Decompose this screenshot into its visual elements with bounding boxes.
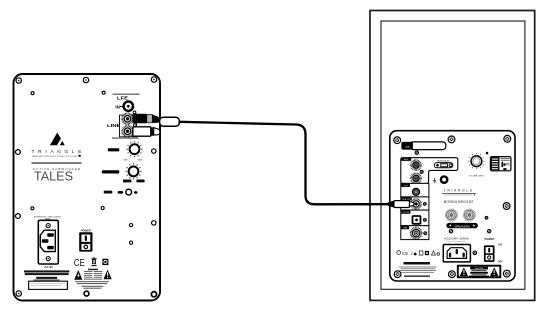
line-in mounting box [120,115,137,137]
small screw near jacks top [133,111,136,114]
RCA jack line L [122,114,133,125]
WEEE bin icon [91,257,97,266]
screw top-middle [83,77,88,82]
svg-text:AC IN: AC IN [44,265,52,269]
40Hz label blob [123,180,131,183]
cable plug into sub out [388,201,418,208]
plate screw mid-right [503,203,510,210]
company bold line [404,262,431,265]
SUB OUT label [401,197,412,201]
svg-text:CE: CE [402,251,408,256]
small screw right of phono jack [424,232,427,235]
small hole right-2 [130,241,133,244]
plate screw bottom-middle [449,271,456,278]
svg-text:MIN: MIN [124,160,128,162]
screw mid-left upper [16,150,21,155]
150Hz label blob [136,180,144,183]
wire segment over cabinet wall [367,203,389,205]
SPEAKERS pill label [446,223,478,229]
svg-text:VOLUME INPUT: VOLUME INPUT [469,175,485,177]
small screw near jacks mid [133,124,136,127]
svg-text:USB: USB [405,146,410,148]
serial label box [29,281,68,289]
small hole upper-left [31,92,34,95]
IEC inlet (left panel) [38,220,58,264]
SUB OUT box [401,197,429,210]
PHONO label [401,226,409,230]
small hole lower-mid [101,207,104,210]
small screw right of sub jack [423,203,426,206]
cabinet inner outline [381,21,525,289]
power rocker switch (left) [79,232,92,251]
OPT IN label [401,211,410,215]
warning triangle left (lightning) [74,270,82,280]
bold underlined model line [36,277,57,279]
screw bottom-left [16,291,21,296]
small hole lower-left [31,207,34,210]
IEC inlet (right plate) [443,245,470,262]
small screw right of toslink [424,219,427,222]
black square icon [102,259,108,265]
caution fine print [75,281,109,289]
svg-text:SPEAKERS: SPEAKERS [455,224,470,228]
RCA jack aux L [411,160,421,170]
small screw under slot [415,151,418,154]
phase 180 label [134,191,138,194]
ground terminal [441,176,447,182]
svg-text:OPT IN: OPT IN [403,212,410,214]
RCA plug top (black) [126,114,160,124]
svg-text:ON: ON [498,243,502,246]
plate screw top-left [394,137,401,144]
svg-text:TRIANGLE: TRIANGLE [32,149,82,155]
screw mid-right lower [152,221,156,225]
small hole upper-mid [102,91,105,94]
plate screw bottom-right [503,270,510,277]
RCA jack aux R [411,173,421,183]
svg-text:LFE: LFE [117,96,128,101]
crossover knob [125,163,141,179]
svg-text:TALES: TALES [34,170,73,184]
screw mid-right upper [152,149,156,153]
AUX / pairing L-shaped box [401,158,458,184]
warning text block [84,269,102,280]
small screw between aux jacks [420,170,423,173]
RCA jack phono [411,228,422,239]
OPT label [401,184,410,188]
plate screw bottom-left [394,271,401,278]
USB slot [401,142,445,150]
binding post left [445,209,457,221]
small screw below posts [488,230,491,233]
svg-text:TRIANGLE: TRIANGLE [444,189,474,193]
volume knob (right plate) [468,153,484,169]
amp plate outline [390,131,515,281]
PHONO box [401,226,429,240]
warning triangle right (exclamation) [104,270,112,280]
certification icons row [397,251,440,256]
RCA plug bottom (white) [126,127,160,136]
knob LED dot [486,152,489,155]
plate screw top-right [504,135,511,142]
plate screw top-middle [448,136,455,143]
small screw right of posts [485,216,488,219]
screw mid-left lower [16,214,21,219]
screw bottom-middle [84,291,89,296]
small screw left below pill [449,230,452,233]
svg-text:MANUFACTURE ELECTROACOUSTIQUE: MANUFACTURE ELECTROACOUSTIQUE [32,155,78,158]
BT pairing slider [434,163,453,168]
svg-text:MAX: MAX [138,159,143,162]
screw top-right [151,77,156,82]
RCA jack LFE [124,102,133,111]
svg-text:AC100-240V~ 50/60Hz: AC100-240V~ 50/60Hz [444,237,469,240]
phono ground icon [433,178,436,183]
screw top-left [16,78,21,83]
svg-text:OFF: OFF [498,261,503,264]
svg-text:CAUTION: CAUTION [475,267,484,270]
triangle brand logo [50,133,65,146]
small hole right-1 [130,224,133,227]
screw right of inlet [473,251,477,255]
RCA jack line R [122,126,133,137]
screw bottom-right [151,292,156,297]
svg-text:CE: CE [74,258,85,269]
svg-text:BOREA BR03 BT: BOREA BR03 BT [444,199,475,204]
made in line [404,275,430,277]
CROSSOVER label [102,170,119,173]
spec sticker with barcode [490,157,511,171]
svg-text:POWER: POWER [81,228,91,232]
dense spec text block [24,270,69,272]
fine print lines [399,267,437,273]
svg-text:POWER: POWER [484,238,494,241]
Y cable junction [160,117,180,126]
OPT box [401,183,429,197]
optical toslink jack [412,215,422,225]
svg-text:IN: IN [115,104,119,109]
jack opt [413,189,420,196]
svg-text:AUX: AUX [404,158,409,161]
AUX label [401,158,411,162]
RCA jack sub out [411,199,421,209]
separator bar [32,162,82,164]
warning sticker (right plate) [458,266,501,278]
phase toggle switch [126,189,132,195]
LFE section separator line [113,94,140,96]
PHASE label blob [104,191,113,194]
svg-text:LINE: LINE [107,123,121,128]
svg-text:LINE: LINE [403,228,408,230]
volume knob [126,141,142,157]
line section separator [112,137,139,139]
subwoofer plate outline [14,74,161,301]
cabinet outer outline [370,11,535,301]
VOLUME label [108,148,120,151]
OPT IN box [401,210,429,226]
wire from Y junction to right speaker [179,122,388,205]
phase 0 label [118,191,123,194]
binding post right [463,209,475,221]
power rocker switch (right) [484,245,495,262]
